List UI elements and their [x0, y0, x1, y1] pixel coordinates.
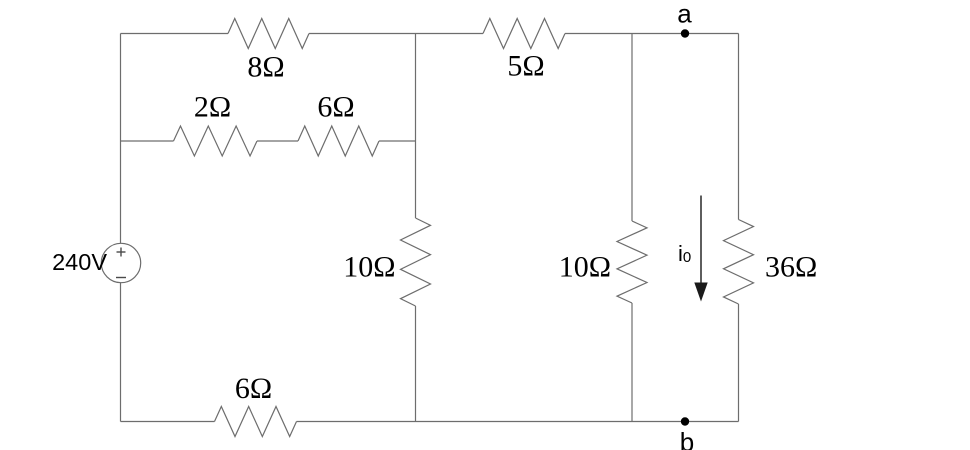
svg-text:6Ω: 6Ω	[317, 91, 354, 124]
svg-text:6Ω: 6Ω	[235, 372, 272, 405]
svg-text:240V: 240V	[52, 249, 107, 275]
svg-text:36Ω: 36Ω	[765, 251, 817, 284]
svg-text:2Ω: 2Ω	[194, 91, 231, 124]
svg-text:b: b	[680, 427, 694, 450]
svg-text:10Ω: 10Ω	[559, 251, 611, 284]
svg-text:10Ω: 10Ω	[343, 251, 395, 284]
svg-text:8Ω: 8Ω	[247, 51, 284, 84]
svg-text:5Ω: 5Ω	[507, 50, 544, 83]
svg-text:a: a	[677, 0, 692, 29]
